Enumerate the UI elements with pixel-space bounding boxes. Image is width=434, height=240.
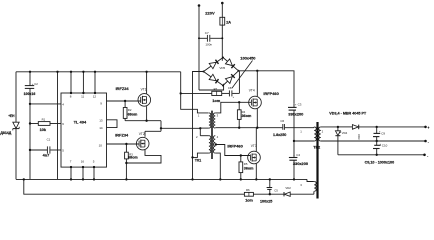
svg-text:100x450: 100x450	[240, 56, 255, 61]
svg-text:VD3: VD3	[357, 134, 361, 140]
svg-text:C8: C8	[228, 86, 232, 90]
svg-text:36om: 36om	[244, 167, 254, 171]
svg-text:12: 12	[93, 95, 97, 99]
svg-text:100x16: 100x16	[24, 92, 36, 96]
svg-text:VT2: VT2	[139, 132, 145, 136]
svg-text:VD3,4 - MBR 4045 PT: VD3,4 - MBR 4045 PT	[329, 111, 367, 115]
svg-text:+EH: +EH	[8, 114, 15, 118]
svg-text:13: 13	[99, 118, 103, 122]
svg-text:220V: 220V	[205, 10, 215, 15]
svg-text:10k: 10k	[40, 127, 47, 132]
svg-text:1om: 1om	[245, 198, 253, 202]
svg-text:VT4: VT4	[249, 89, 255, 93]
svg-text:VT3: VT3	[251, 144, 257, 148]
svg-text:C9,10 - 1000x100: C9,10 - 1000x100	[365, 160, 395, 164]
svg-text:VD2: VD2	[285, 186, 291, 190]
svg-text:VD4: VD4	[342, 131, 348, 135]
svg-text:IRFZ34: IRFZ34	[116, 86, 130, 91]
svg-text:R1: R1	[42, 118, 46, 122]
svg-text:14: 14	[99, 126, 103, 130]
svg-text:VD5: VD5	[219, 66, 225, 70]
svg-text:1om: 1om	[212, 98, 221, 103]
svg-text:11: 11	[81, 95, 84, 99]
svg-text:C1: C1	[47, 137, 51, 141]
svg-text:+: +	[427, 126, 429, 130]
svg-text:1.8x250: 1.8x250	[273, 133, 286, 137]
svg-text:Д814Д: Д814Д	[0, 131, 11, 135]
svg-text:IRFP460: IRFP460	[227, 144, 242, 149]
svg-text:R5: R5	[244, 162, 248, 166]
svg-text:+ C2: + C2	[32, 82, 38, 86]
svg-text:2A: 2A	[226, 20, 231, 24]
svg-text:VT1: VT1	[141, 87, 147, 91]
svg-text:R7: R7	[214, 87, 218, 91]
svg-text:330x200: 330x200	[288, 112, 303, 117]
svg-text:C3: C3	[298, 103, 302, 107]
svg-text:C6: C6	[280, 119, 284, 123]
svg-text:330x200: 330x200	[293, 161, 308, 166]
svg-text:100x25: 100x25	[260, 200, 272, 204]
svg-text:68om: 68om	[128, 156, 138, 160]
svg-text:R6: R6	[246, 188, 250, 192]
svg-text:IRFP460: IRFP460	[263, 91, 278, 96]
svg-text:C7: C7	[205, 31, 209, 35]
svg-text:C4: C4	[296, 153, 300, 157]
svg-text:4n7: 4n7	[43, 153, 50, 158]
svg-text:36om: 36om	[242, 114, 252, 118]
svg-text:TR2: TR2	[313, 145, 320, 149]
svg-text:C5: C5	[274, 189, 278, 193]
svg-text:C10: C10	[382, 144, 388, 148]
svg-text:68om: 68om	[128, 113, 138, 117]
svg-text:TL 494: TL 494	[74, 120, 87, 125]
svg-text:100n: 100n	[205, 42, 212, 46]
svg-text:T01: T01	[195, 159, 201, 163]
svg-text:R2: R2	[128, 108, 132, 112]
svg-text:IRFZ34: IRFZ34	[115, 132, 129, 137]
svg-text:16: 16	[81, 160, 85, 164]
svg-text:10: 10	[99, 143, 103, 147]
svg-text:C9: C9	[381, 131, 385, 135]
